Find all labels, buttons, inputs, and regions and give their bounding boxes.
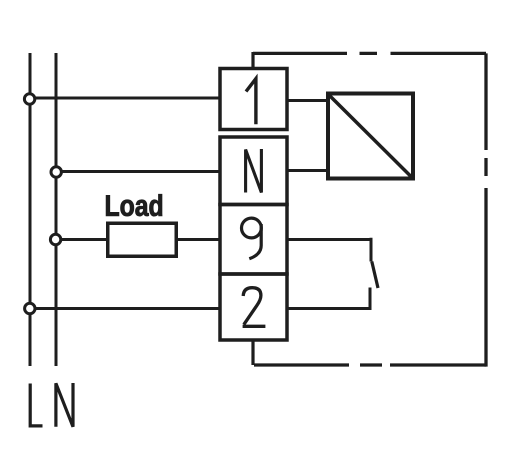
net label L (30, 384, 42, 426)
pin label 1 (246, 79, 256, 125)
terminal 9 box (220, 205, 287, 275)
wire N tap to load (60, 238, 107, 241)
wire N supply rail (55, 53, 58, 366)
pin label N (246, 149, 262, 193)
wire N to terminal N (60, 170, 220, 173)
pin label 9 (242, 218, 262, 238)
wire terminal 2 bottom stub to enclosure (251, 339, 254, 365)
pin label 2 (243, 288, 266, 327)
svg-text:Load: Load (104, 190, 163, 223)
enclosure dashed top edge (253, 52, 486, 55)
switch S1 blade (372, 262, 378, 289)
resistor Load (108, 223, 177, 256)
wire terminal 9 to switch (287, 238, 371, 262)
wire terminal 1 top stub to enclosure (251, 52, 254, 70)
wire load to terminal 9 (177, 238, 220, 241)
terminal 2 box (220, 274, 287, 340)
wire L to terminal 1 (34, 97, 220, 100)
wire switch to terminal 2 (287, 288, 372, 309)
wire terminal N to converter (287, 169, 328, 172)
terminal N box (220, 137, 287, 205)
converter U1 square with diagonal (328, 94, 413, 179)
wire L supply rail (29, 53, 32, 366)
node A junction L line top (24, 94, 34, 104)
node B junction N line (51, 167, 61, 177)
net label N (56, 383, 73, 427)
node D junction L line bottom (25, 303, 35, 313)
wire L tap to terminal 2 (34, 307, 220, 310)
enclosure dashed bottom edge (254, 363, 486, 366)
wire terminal 1 to converter (287, 99, 328, 102)
terminal 1 box (220, 69, 287, 130)
enclosure dashed right edge (484, 53, 487, 366)
node C junction N line load tap (50, 234, 60, 244)
